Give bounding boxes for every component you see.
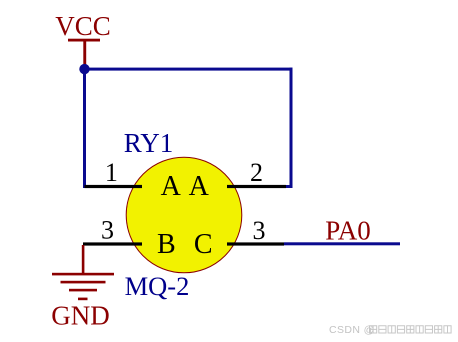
svg-text:PA0: PA0 — [325, 216, 371, 246]
svg-text:GND: GND — [51, 301, 110, 331]
junction dot — [79, 64, 89, 74]
svg-text:3: 3 — [253, 216, 266, 245]
svg-text:2: 2 — [250, 158, 263, 187]
svg-text:B: B — [157, 229, 176, 260]
power symbol VCC — [55, 11, 111, 66]
wire VCC loop top — [83, 68, 293, 71]
svg-text:CSDN @: CSDN @ — [329, 324, 375, 336]
wire net PA0 — [284, 242, 400, 245]
svg-text:C: C — [194, 229, 213, 260]
svg-text:A: A — [189, 171, 210, 202]
svg-text:MQ-2: MQ-2 — [125, 271, 190, 301]
pin 2 — [227, 158, 286, 188]
wire left vertical from junction to pin 1 — [83, 68, 86, 188]
wire VCC loop right vertical — [290, 68, 293, 188]
svg-text:VCC: VCC — [55, 11, 111, 41]
pin 3 right — [227, 216, 284, 246]
pin 1 — [85, 158, 143, 188]
pin 3 left — [83, 215, 142, 245]
svg-text:1: 1 — [105, 158, 118, 187]
watermark — [329, 324, 451, 336]
svg-text:A: A — [161, 171, 182, 202]
ground GND — [51, 245, 114, 331]
wire stub to pin 2 — [285, 185, 293, 188]
relay body RY1 (yellow circle) — [126, 157, 242, 273]
svg-text:3: 3 — [101, 215, 114, 244]
svg-text:RY1: RY1 — [124, 128, 174, 158]
